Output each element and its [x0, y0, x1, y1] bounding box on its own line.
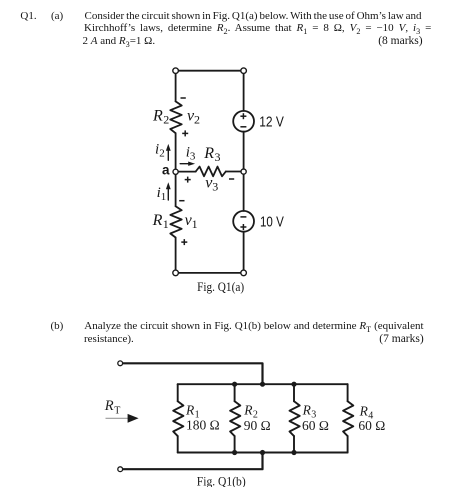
svg-text:Fig. Q1(b): Fig. Q1(b) — [197, 474, 246, 487]
resistor R1 — [170, 206, 181, 237]
polarity plus inside 12V — [240, 113, 246, 119]
svg-text:60 Ω: 60 Ω — [358, 418, 385, 433]
junction dot feed top — [260, 382, 265, 387]
junction dot R2 top — [232, 382, 237, 387]
label R1 — [152, 212, 169, 231]
caption Fig. Q1(a) — [197, 279, 244, 294]
svg-text:1: 1 — [163, 217, 169, 231]
wire R3 to right rail — [226, 171, 244, 173]
wire bottom rail fig(a) — [176, 272, 244, 274]
voltage source 12V — [233, 111, 254, 132]
svg-text:R: R — [152, 108, 163, 125]
svg-text:3: 3 — [190, 150, 196, 162]
svg-text:Fig. Q1(a): Fig. Q1(a) — [197, 279, 244, 294]
wire branch R4 upper — [347, 384, 349, 401]
junction dot R3 bottom — [291, 450, 296, 455]
wire branch R3 upper — [293, 384, 295, 401]
voltage source 10V — [233, 211, 254, 232]
polarity minus inside 12V — [240, 126, 246, 128]
current arrow i3 — [180, 162, 195, 166]
wire R2 to node a — [175, 133, 177, 172]
svg-text:10 V: 10 V — [260, 214, 284, 231]
current arrow i2 — [166, 144, 171, 160]
wire branch R3 lower — [293, 436, 295, 452]
svg-text:90 Ω: 90 Ω — [244, 418, 271, 433]
node right-middle fig(a) — [241, 169, 246, 174]
polarity plus R2 — [182, 130, 188, 136]
svg-text:1: 1 — [161, 191, 167, 203]
node top-right fig(a) — [241, 68, 247, 74]
polarity minus inside 10V — [240, 216, 246, 218]
wire right rail upper — [243, 71, 245, 111]
label RT — [104, 398, 121, 416]
svg-text:R: R — [203, 145, 214, 162]
node bottom terminal fig(b) — [118, 467, 123, 472]
label R2 — [152, 108, 169, 127]
wire 12V to middle node — [243, 132, 245, 172]
polarity plus inside 10V — [240, 224, 246, 230]
node top terminal fig(b) — [118, 361, 123, 366]
wire left rail upper — [175, 71, 177, 102]
label R3 value (b) — [302, 403, 329, 433]
svg-text:R: R — [185, 402, 195, 417]
node a — [173, 169, 178, 174]
svg-text:R: R — [104, 398, 114, 414]
svg-text:a: a — [162, 163, 170, 178]
svg-text:R: R — [243, 402, 253, 417]
wire branch R4 lower — [347, 436, 349, 452]
svg-text:R: R — [359, 404, 369, 419]
wire R1 to bottom rail — [175, 238, 177, 273]
wire middle node to 10V — [243, 172, 245, 211]
polarity plus v3 — [185, 177, 191, 183]
resistor R1 (b) — [173, 401, 183, 436]
svg-text:R: R — [302, 403, 312, 418]
label v1 — [185, 212, 198, 231]
wire top rail fig(a) — [176, 70, 244, 72]
svg-text:R: R — [152, 212, 163, 229]
wire branch R1 upper — [177, 384, 179, 401]
label node a — [162, 163, 170, 178]
label v2 — [187, 108, 200, 127]
resistor R3 (b) — [290, 401, 300, 436]
svg-text:180 Ω: 180 Ω — [186, 418, 220, 433]
question text part (a) — [20, 10, 36, 22]
label R4 value (b) — [358, 404, 385, 434]
resistor R3 — [196, 167, 226, 177]
svg-text:12 V: 12 V — [259, 114, 284, 131]
node bottom-left fig(a) — [173, 270, 179, 276]
svg-text:2: 2 — [163, 113, 169, 127]
wire 10V to bottom rail — [243, 232, 245, 273]
polarity minus R2 — [181, 97, 186, 99]
current arrow i1 — [166, 182, 171, 200]
svg-text:3: 3 — [212, 179, 218, 193]
polarity minus v3 — [229, 178, 234, 180]
junction dot R2 bottom — [232, 450, 237, 455]
wire branch R2 upper — [234, 384, 236, 401]
resistor R2 (b) — [230, 401, 240, 436]
svg-text:2: 2 — [194, 113, 200, 127]
label R1 value (b) — [185, 402, 220, 432]
label i3 — [186, 144, 196, 162]
node bottom-right fig(a) — [241, 270, 247, 276]
resistor R2 — [170, 101, 181, 133]
label R2 value (b) — [243, 402, 270, 432]
node top-left fig(a) — [173, 68, 179, 74]
wire top bus fig(b) — [178, 383, 348, 385]
label 10 V — [260, 214, 284, 231]
svg-text:T: T — [114, 405, 120, 416]
junction dot R3 top — [291, 382, 296, 387]
question text part (b) — [51, 320, 64, 332]
junction dot feed bottom — [260, 450, 265, 455]
wire branch R1 lower — [177, 436, 179, 452]
wire branch R2 lower — [234, 436, 236, 452]
svg-text:3: 3 — [215, 150, 221, 164]
caption Fig. Q1(b) — [197, 474, 246, 487]
polarity minus R1 — [179, 200, 184, 202]
wire bottom bus fig(b) — [178, 452, 348, 454]
label 12 V — [259, 114, 284, 131]
polarity plus R1 — [181, 239, 187, 245]
wire node a to R3 — [178, 171, 196, 173]
svg-text:1: 1 — [192, 217, 198, 231]
label v3 — [205, 174, 218, 193]
wire bottom terminal lead fig(b) — [123, 453, 263, 470]
label i1 — [157, 185, 167, 203]
label R3 — [203, 145, 220, 164]
svg-text:2: 2 — [159, 147, 165, 159]
label i2 — [155, 141, 165, 159]
wire top terminal lead fig(b) — [123, 363, 263, 384]
resistor R4 (b) — [343, 401, 353, 436]
wire node a to R1 — [175, 172, 177, 206]
arrow RT — [106, 414, 139, 423]
svg-text:60 Ω: 60 Ω — [302, 418, 329, 433]
